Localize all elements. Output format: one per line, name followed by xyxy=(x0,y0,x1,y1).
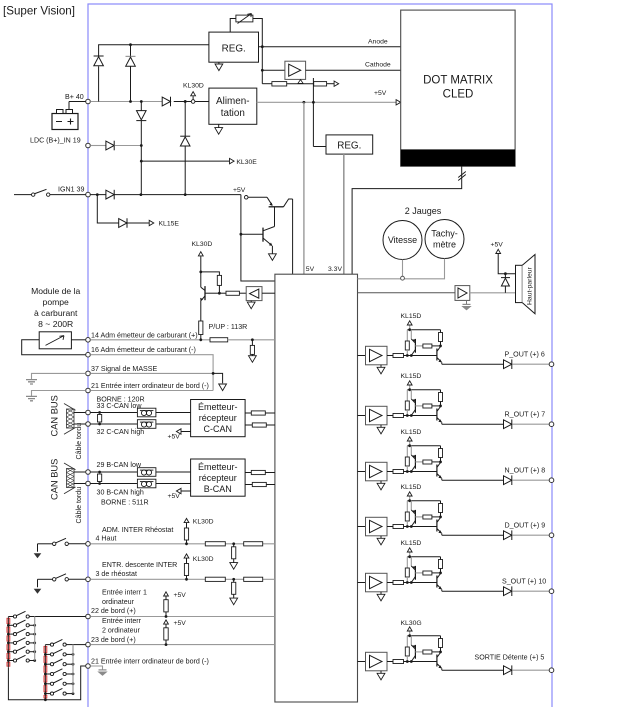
regulator REG2 3.3V xyxy=(326,135,373,154)
svg-text:23 de bord (+): 23 de bord (+) xyxy=(91,636,136,644)
svg-text:32 C-CAN high: 32 C-CAN high xyxy=(97,428,145,436)
svg-text:ENTR. descente INTER: ENTR. descente INTER xyxy=(102,561,177,569)
diode D4 B+ series xyxy=(162,97,170,107)
diode D1 xyxy=(94,56,104,66)
svg-text:à carburant: à carburant xyxy=(34,308,78,318)
wire 21b to chassis xyxy=(90,666,102,670)
svg-text:CLED: CLED xyxy=(443,89,474,101)
svg-text:30 B-CAN high: 30 B-CAN high xyxy=(97,488,144,496)
svg-text:Haut-parleur: Haut-parleur xyxy=(527,266,534,305)
wire flex cable from display xyxy=(352,166,462,274)
switch SW2.6 xyxy=(44,688,74,695)
fuel sender variable resistor xyxy=(39,332,71,349)
switch SW2.4 xyxy=(44,669,74,676)
svg-text:Entrée interr: Entrée interr xyxy=(102,617,142,625)
connector strip SW1 xyxy=(7,618,10,623)
diode D6 column to IGN xyxy=(184,100,187,103)
svg-text:33 C-CAN low: 33 C-CAN low xyxy=(97,402,143,410)
switch SW1.6 xyxy=(7,655,36,662)
svg-text:D_OUT (+) 9: D_OUT (+) 9 xyxy=(505,522,546,530)
wire buffer to speaker xyxy=(470,292,516,294)
svg-text:21 Entrée interr ordinateur de: 21 Entrée interr ordinateur de bord (-) xyxy=(91,382,209,390)
svg-text:LDC (B+)_IN 19: LDC (B+)_IN 19 xyxy=(30,137,81,145)
wire SW2 bus xyxy=(72,645,74,694)
wire 5V branch vertical xyxy=(312,78,314,147)
op-amp buffer U8 xyxy=(455,286,470,301)
svg-text:pompe: pompe xyxy=(43,297,69,307)
wire +5V rail xyxy=(257,101,397,103)
inverter buffer U5 xyxy=(246,287,262,301)
node 16 xyxy=(86,352,91,357)
svg-text:+5V: +5V xyxy=(491,242,504,249)
wire 37 to chassis left xyxy=(32,373,86,379)
svg-text:Alimen-: Alimen- xyxy=(216,96,249,107)
wire KL15E branch xyxy=(97,195,118,223)
wire anode net xyxy=(259,46,401,48)
speaker Haut-parleur xyxy=(516,255,536,314)
diode clamp D9 xyxy=(501,274,510,293)
svg-text:B-CAN: B-CAN xyxy=(204,484,232,494)
connector strip SW2 xyxy=(44,646,47,652)
svg-text:5V: 5V xyxy=(306,266,315,273)
wire row 22 xyxy=(86,614,91,619)
wires sender loop xyxy=(71,339,85,341)
svg-text:3 de rhéostat: 3 de rhéostat xyxy=(96,570,137,578)
diode D5 xyxy=(106,141,114,151)
node 21 xyxy=(86,388,91,393)
svg-text:29 B-CAN low: 29 B-CAN low xyxy=(97,461,142,469)
svg-text:Anode: Anode xyxy=(368,39,388,46)
node KL30D tap xyxy=(183,83,204,104)
node 21b xyxy=(86,664,91,669)
svg-text:P_OUT (+) 6: P_OUT (+) 6 xyxy=(505,351,545,359)
transistor Q2 npn xyxy=(263,227,276,261)
C-CAN bus interface xyxy=(64,400,275,441)
transistor Q3 pnp high-side xyxy=(192,241,222,321)
transistor Q1 pnp xyxy=(248,197,293,226)
svg-text:Câble tordu: Câble tordu xyxy=(75,423,83,460)
svg-text:REG.: REG. xyxy=(337,141,361,152)
svg-text:CAN BUS: CAN BUS xyxy=(50,395,60,436)
svg-text:tation: tation xyxy=(221,108,245,119)
svg-text:KL15E: KL15E xyxy=(159,221,180,228)
wire B+ rail xyxy=(90,101,162,103)
resistor R2 xyxy=(262,83,272,85)
svg-text:B+ 40: B+ 40 xyxy=(65,93,84,101)
svg-text:mètre: mètre xyxy=(433,240,456,250)
channel N_OUT xyxy=(358,437,554,490)
trimmer R feedback xyxy=(230,14,262,47)
ground under Alimentation xyxy=(218,124,220,127)
channel SORTIE Detente xyxy=(358,627,554,680)
shunt RC on 14 xyxy=(251,338,254,341)
wire IGN row xyxy=(90,194,241,196)
svg-text:4 Haut: 4 Haut xyxy=(96,534,117,542)
svg-text:16 Adm émetteur de carburant (: 16 Adm émetteur de carburant (-) xyxy=(91,346,196,354)
switch SW1.4 xyxy=(7,638,36,645)
ground under U8 xyxy=(466,300,468,304)
svg-text:KL15D: KL15D xyxy=(401,484,422,491)
svg-text:Entrée interr 1: Entrée interr 1 xyxy=(102,589,147,597)
svg-text:Module de la: Module de la xyxy=(31,286,80,296)
node 14 xyxy=(86,338,91,343)
svg-text:ordinateur: ordinateur xyxy=(102,598,135,606)
channel D_OUT xyxy=(358,492,554,545)
wire MCU to speaker buffer xyxy=(358,292,456,294)
wire 16 to ground tie xyxy=(90,355,213,391)
gauge Tachymetre xyxy=(425,220,464,259)
wire gauges feed xyxy=(358,259,445,279)
gauge Vitesse xyxy=(383,221,422,260)
ground under inverter xyxy=(250,301,252,303)
node KL30E xyxy=(140,160,143,163)
battery G1 xyxy=(52,102,86,130)
svg-text:KL15D: KL15D xyxy=(401,429,422,436)
channel S_OUT xyxy=(358,548,554,601)
svg-text:KL30E: KL30E xyxy=(236,159,257,166)
svg-text:DOT MATRIX: DOT MATRIX xyxy=(423,74,493,86)
svg-text:P/UP : 113R: P/UP : 113R xyxy=(209,323,248,331)
wire to buffer input xyxy=(261,47,263,84)
svg-text:Câble tordu: Câble tordu xyxy=(75,487,83,524)
switch SW2.2 xyxy=(44,649,74,656)
wire column B xyxy=(130,45,132,102)
svg-text:Émetteur-: Émetteur- xyxy=(198,462,238,472)
svg-text:récepteur: récepteur xyxy=(199,473,237,483)
switch SW1.2 xyxy=(7,620,36,627)
svg-text:C-CAN: C-CAN xyxy=(204,424,233,434)
node 37 xyxy=(86,371,91,376)
svg-text:Émetteur-: Émetteur- xyxy=(198,402,238,412)
wire 21 row xyxy=(90,390,213,392)
wire 37 masse xyxy=(90,372,213,374)
svg-text:22 de bord (+): 22 de bord (+) xyxy=(91,607,136,615)
power supply Alimentation xyxy=(209,88,257,124)
wire 5V rail to MCU xyxy=(303,102,305,274)
svg-text:KL30D: KL30D xyxy=(183,83,204,90)
svg-text:KL30D: KL30D xyxy=(193,518,214,525)
wire 21 to chassis left xyxy=(32,391,86,397)
svg-text:récepteur: récepteur xyxy=(199,413,237,423)
diode D3 down column xyxy=(140,100,143,103)
wire 21b to switch banks xyxy=(8,666,85,700)
wire row 23 xyxy=(86,642,91,647)
diode D2 xyxy=(126,56,136,66)
wire cathode net xyxy=(306,69,401,71)
resistor R3 xyxy=(314,82,327,86)
switch SW2.3 xyxy=(44,659,74,666)
svg-text:KL15D: KL15D xyxy=(401,540,422,547)
op-amp buffer U2 xyxy=(285,61,306,79)
ground under REG1 xyxy=(218,62,220,64)
wire IGN to Q2 base xyxy=(241,195,275,281)
svg-text:8 ~ 200R: 8 ~ 200R xyxy=(38,319,73,329)
svg-text:37 Signal de MASSE: 37 Signal de MASSE xyxy=(91,365,158,373)
channel R_OUT xyxy=(358,381,554,434)
svg-text:N_OUT (+) 8: N_OUT (+) 8 xyxy=(505,467,546,475)
wire Q1 collector to MCU xyxy=(292,199,294,274)
input row 3 xyxy=(34,554,275,605)
svg-text:KL30G: KL30G xyxy=(401,620,422,627)
+5V pull-up 23 xyxy=(164,620,187,646)
svg-text:+5V: +5V xyxy=(233,187,246,194)
switch SW2.1 xyxy=(45,639,73,646)
switch ignition xyxy=(14,194,32,196)
svg-text:KL15D: KL15D xyxy=(401,313,422,320)
display module U3 xyxy=(401,10,515,166)
switch SW2.5 xyxy=(44,679,74,686)
svg-text:BORNE : 511R: BORNE : 511R xyxy=(101,499,149,507)
resistor to inverter xyxy=(219,292,226,294)
B-CAN bus interface xyxy=(64,459,275,500)
wire 3.3V rail to MCU xyxy=(343,154,345,274)
regulator REG1 xyxy=(209,32,259,62)
svg-text:IGN1 39: IGN1 39 xyxy=(58,186,84,194)
svg-text:Tachy-: Tachy- xyxy=(431,229,458,239)
switch SW1.3 xyxy=(7,629,36,636)
svg-text:14 Adm émetteur de carburant (: 14 Adm émetteur de carburant (+) xyxy=(91,331,198,339)
diode D7 xyxy=(106,190,114,200)
input row 4 xyxy=(34,518,275,569)
microcontroller U4 xyxy=(275,274,358,702)
svg-text:+5V: +5V xyxy=(374,90,387,97)
+5V pull-up 22 xyxy=(164,592,187,618)
svg-text:3.3V: 3.3V xyxy=(328,266,342,273)
svg-text:KL30D: KL30D xyxy=(193,556,214,563)
wire top rail to REG xyxy=(99,45,209,102)
svg-text:ADM. INTER Rhéostat: ADM. INTER Rhéostat xyxy=(102,526,173,534)
wire 14 row xyxy=(90,339,210,341)
svg-text:CAN BUS: CAN BUS xyxy=(50,459,60,500)
buffer enable pin arrow xyxy=(298,80,303,84)
svg-text:KL30D: KL30D xyxy=(192,241,213,248)
channel P_OUT xyxy=(358,321,554,374)
svg-text:Vitesse: Vitesse xyxy=(388,235,417,245)
svg-text:REG.: REG. xyxy=(222,43,246,54)
resistor series 14 xyxy=(210,338,228,342)
ECU outer boundary box xyxy=(88,4,552,707)
svg-text:Cathode: Cathode xyxy=(365,61,391,68)
switch SW1.5 xyxy=(7,647,36,654)
wire SW1 bus xyxy=(34,617,36,661)
svg-text:R_OUT (+) 7: R_OUT (+) 7 xyxy=(505,411,546,419)
svg-text:21 Entrée interr ordinateur d: 21 Entrée interr ordinateur de bord (-) xyxy=(91,658,209,666)
svg-text:SORTIE Détente (+) 5: SORTIE Détente (+) 5 xyxy=(475,654,545,662)
diode D8 xyxy=(119,218,127,228)
svg-text:[Super Vision]: [Super Vision] xyxy=(3,4,75,17)
svg-text:KL15D: KL15D xyxy=(401,373,422,380)
svg-text:2 Jauges: 2 Jauges xyxy=(405,206,442,216)
switch SW1.1 xyxy=(8,611,34,618)
svg-text:S_OUT (+) 10: S_OUT (+) 10 xyxy=(502,578,546,586)
svg-text:2 ordinateur: 2 ordinateur xyxy=(102,627,140,635)
